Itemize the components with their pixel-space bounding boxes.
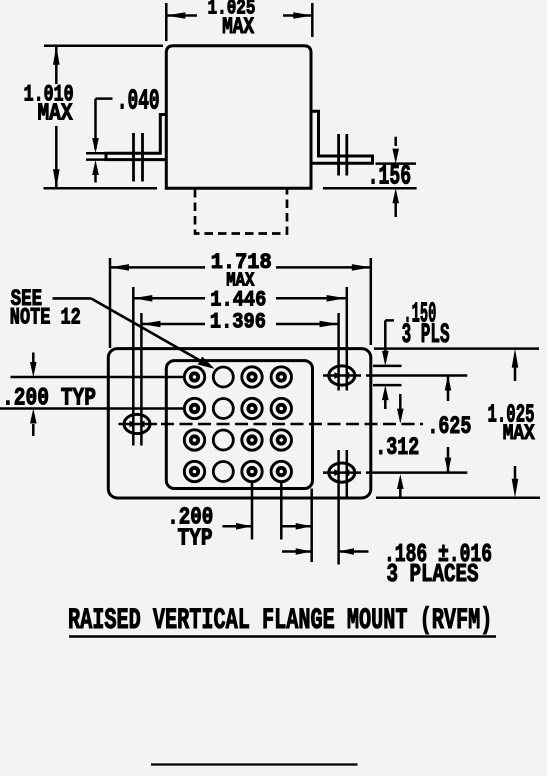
svg-text:.156: .156 (368, 162, 412, 193)
bottom view: flange plate outline (108, 349, 371, 498)
pin pads row 2 (184, 398, 291, 418)
dim .312 (center to slot) (375, 394, 419, 498)
bottom view: body footprint outline (166, 361, 312, 489)
svg-text:MAX: MAX (222, 14, 254, 40)
svg-text:3 PLS: 3 PLS (402, 320, 450, 351)
top view: hidden lower boss (dashed rectangle) (195, 189, 287, 234)
top view: transformer body outline (166, 46, 311, 189)
dim .186 +/-.016 3 PLACES (slot length) (282, 539, 492, 589)
svg-text:.040: .040 (117, 85, 160, 118)
dim .040 (flange thickness) (92, 85, 160, 183)
pad column extension lines (below plate) (252, 482, 312, 562)
left slot centerline (119, 423, 424, 426)
right upper slot vertical extension lines (1.446 / 1.396 right) (339, 287, 347, 391)
footer rule line (151, 763, 358, 765)
top view: right mounting flange bracket (311, 111, 373, 163)
top view: left flange lead pins (134, 133, 143, 182)
left mounting slot (124, 414, 150, 433)
svg-text:MAX: MAX (38, 101, 73, 128)
right upper slot centerline (323, 374, 467, 377)
svg-text:.625: .625 (427, 412, 471, 441)
top view: left mounting flange bracket (106, 115, 166, 160)
dim .625 (slot vertical span) (427, 376, 471, 473)
note leader SEE NOTE 12 (10, 286, 215, 369)
row 2 extension line (left) (0, 407, 184, 410)
dim 1.718 MAX (overall width) (110, 250, 371, 348)
svg-text:NOTE 12: NOTE 12 (10, 305, 81, 331)
right lower mounting slot (329, 463, 355, 482)
svg-text:1.396: 1.396 (210, 310, 266, 335)
right lower slot vertical lines (339, 450, 347, 565)
caption RAISED VERTICAL FLANGE MOUNT (RVFM) (68, 604, 496, 638)
dim .200 TYP (left row pitch) (2, 353, 96, 437)
dim .150 3 PLS (slot width) (373, 298, 450, 410)
svg-text:MAX: MAX (503, 420, 535, 446)
pin pads row 1 (184, 367, 291, 387)
dim 1.025 MAX (top width) (166, 0, 312, 41)
row 1 extension line (left) (11, 376, 185, 379)
dim 1.446 (slot outer span) (133, 288, 345, 313)
svg-text:TYP: TYP (178, 526, 213, 553)
pin pads row 4 (184, 461, 291, 481)
svg-text:RAISED VERTICAL FLANGE MOUNT (: RAISED VERTICAL FLANGE MOUNT (RVFM) (68, 604, 493, 638)
dim .200 TYP (bottom pad pitch) (167, 505, 311, 553)
left slot vertical extension lines (1.446 / 1.396 left) (133, 287, 141, 446)
right upper mounting slot (329, 366, 355, 385)
dim .156 (flange standoff height) (323, 137, 417, 217)
svg-text:.200 TYP: .200 TYP (2, 384, 96, 413)
dim 1.396 (slot inner span) (141, 310, 338, 335)
svg-text:.312: .312 (375, 433, 419, 462)
svg-text:3 PLACES: 3 PLACES (387, 560, 479, 589)
pin pads row 3 (184, 430, 291, 450)
dim 1.010 MAX (left height) (24, 46, 163, 189)
top view: right flange lead pins (339, 134, 347, 176)
top view: left flange extension lines for .040 (86, 153, 108, 159)
right lower slot centerline (323, 471, 467, 474)
dim 1.025 MAX (plate height, right) (374, 349, 540, 498)
